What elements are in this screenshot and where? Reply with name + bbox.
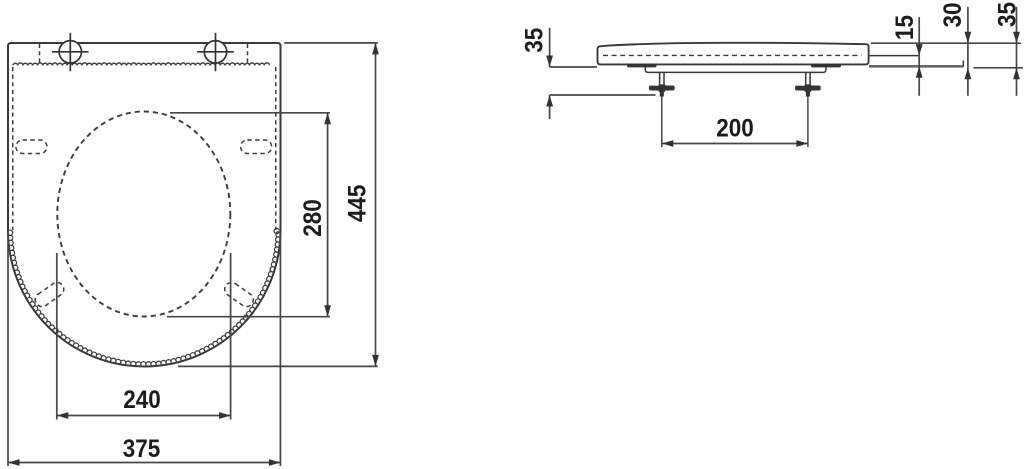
svg-text:240: 240 [123,386,161,414]
svg-text:35: 35 [520,28,548,53]
svg-text:35: 35 [993,2,1021,27]
svg-text:15: 15 [891,15,919,40]
svg-text:375: 375 [123,435,161,463]
svg-text:445: 445 [343,185,371,223]
svg-text:280: 280 [299,199,327,237]
svg-text:30: 30 [939,2,967,27]
svg-text:200: 200 [716,115,754,143]
